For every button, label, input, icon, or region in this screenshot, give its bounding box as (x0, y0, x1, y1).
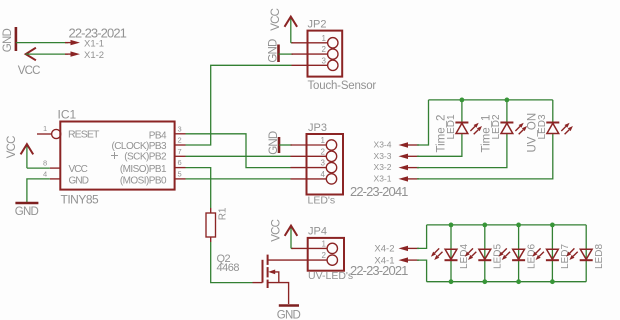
pin JP2-3 (292, 56, 338, 70)
connector JP2 (308, 19, 377, 92)
wire X3-2 to LED2 (417, 134, 507, 168)
wire top bus (427, 224, 587, 226)
svg-text:4: 4 (43, 169, 47, 178)
svg-text:(MISO)PB1: (MISO)PB1 (120, 164, 167, 175)
wire gnd to JP3 pin1 (279, 144, 292, 146)
svg-text:LED2: LED2 (491, 114, 502, 139)
pin 1 RESET (37, 124, 100, 141)
diode LED5 (465, 244, 504, 269)
svg-text:VCC: VCC (271, 219, 283, 241)
ground at JP3 (268, 131, 280, 155)
pin X1-1 (65, 38, 104, 49)
connector JP4 (308, 226, 353, 283)
pin JP4-2 (292, 251, 338, 265)
transistor Q2 (217, 253, 292, 304)
svg-text:7: 7 (178, 147, 182, 156)
svg-text:4468: 4468 (217, 262, 240, 274)
svg-text:GND: GND (277, 310, 301, 320)
supply VCC (18, 48, 40, 77)
pin X3-2 (374, 162, 419, 172)
pin X3-3 (374, 151, 419, 161)
wire X3-4 to led bus (417, 100, 429, 145)
diode LED4 (431, 244, 470, 269)
svg-text:LED7: LED7 (560, 244, 571, 269)
svg-text:22-23-2021: 22-23-2021 (69, 26, 127, 41)
svg-text:1: 1 (322, 239, 327, 248)
pin X3-1 (374, 173, 419, 183)
junction LED6 bottom (516, 279, 521, 284)
supply VCC at JP2 (270, 8, 297, 42)
wire (26, 53, 68, 55)
wire gnd to JP2 pin2 (279, 53, 294, 55)
ground at IC (15, 203, 39, 218)
pin 5 PB0 (120, 169, 186, 186)
ic origin cross (111, 152, 118, 159)
wire (16, 42, 68, 44)
pin 8 VCC (43, 159, 88, 176)
svg-text:3: 3 (178, 124, 182, 133)
wire X4-2 to top bus (417, 225, 427, 249)
svg-text:PB4: PB4 (149, 131, 167, 142)
svg-text:(SCK)PB2: (SCK)PB2 (124, 152, 167, 163)
svg-text:X3-1: X3-1 (374, 173, 392, 183)
wire X3-3 to LED1 (417, 134, 462, 157)
wire PB1 down to R1 (186, 168, 211, 208)
svg-text:X4-1: X4-1 (374, 255, 394, 266)
svg-text:UV-LED's: UV-LED's (308, 270, 353, 282)
pin X4-2 (374, 244, 419, 255)
diode LED7 (532, 244, 571, 269)
svg-text:GND: GND (268, 131, 280, 155)
svg-text:3: 3 (322, 56, 327, 65)
supply VCC at JP4 (271, 219, 298, 248)
junction LED5 bottom (482, 279, 487, 284)
diode LED6 (498, 244, 537, 269)
diode LED8 (566, 244, 605, 269)
junction LED6 top (516, 223, 521, 228)
svg-text:2: 2 (322, 251, 327, 260)
pin JP3-3 (291, 159, 337, 173)
junction LED7 top (550, 223, 555, 228)
wire LED5 branch (484, 225, 486, 282)
wire PB3 to JP2 pin3 (186, 65, 292, 145)
svg-text:LED's: LED's (308, 195, 336, 207)
svg-text:VCC: VCC (18, 65, 40, 77)
wire LED6 branch (518, 225, 520, 282)
wire anode bus (429, 99, 553, 101)
svg-text:22-23-2041: 22-23-2041 (350, 184, 408, 199)
pin 7 PB2 (124, 147, 185, 163)
junction at LED1 (460, 98, 465, 103)
junction LED4 bottom (449, 279, 454, 284)
svg-text:X3-3: X3-3 (374, 151, 392, 161)
wire PB4 to JP3 pin3 (186, 134, 291, 168)
svg-text:2: 2 (322, 45, 327, 54)
svg-text:R1: R1 (218, 207, 229, 220)
supply VCC at IC (6, 136, 33, 168)
pin 6 PB1 (120, 158, 186, 175)
svg-text:(MOSI)PB0: (MOSI)PB0 (120, 176, 167, 187)
svg-text:5: 5 (178, 169, 182, 178)
pin JP3-4 (291, 170, 337, 184)
svg-text:JP3: JP3 (308, 122, 327, 134)
svg-text:TINY85: TINY85 (61, 192, 100, 206)
svg-text:GND: GND (2, 29, 14, 53)
svg-text:6: 6 (178, 158, 182, 167)
svg-text:1: 1 (321, 136, 326, 145)
wire LED1 stem (461, 100, 463, 123)
junction LED4 top (449, 223, 454, 228)
svg-text:X1-2: X1-2 (84, 50, 104, 61)
svg-text:GND: GND (268, 39, 280, 63)
svg-text:GND: GND (69, 176, 89, 187)
svg-text:2: 2 (321, 147, 326, 156)
diode LED1 (436, 114, 483, 152)
svg-text:LED6: LED6 (526, 244, 537, 269)
svg-text:Touch-Sensor: Touch-Sensor (308, 80, 377, 92)
svg-text:(CLOCK)PB3: (CLOCK)PB3 (111, 141, 167, 152)
pin JP3-2 (291, 147, 337, 161)
wire bottom bus (427, 281, 587, 283)
svg-text:X4-2: X4-2 (374, 244, 394, 255)
svg-text:2: 2 (178, 136, 182, 145)
diode LED2 (481, 114, 528, 152)
svg-text:VCC: VCC (6, 136, 18, 158)
pin 4 GND (43, 169, 89, 186)
junction LED5 top (482, 223, 487, 228)
svg-text:3: 3 (321, 159, 326, 168)
wire PB2 to JP3 pin2 (186, 155, 291, 157)
svg-text:JP2: JP2 (308, 19, 327, 31)
svg-text:IC1: IC1 (58, 108, 77, 122)
svg-text:X3-2: X3-2 (374, 162, 392, 172)
ground at JP2 (268, 39, 280, 63)
wire pin4 to gnd (27, 179, 50, 202)
junction LED7 bottom (550, 279, 555, 284)
connector JP3 (307, 122, 344, 207)
svg-text:VCC: VCC (69, 164, 88, 175)
wire LED8 branch (585, 225, 587, 282)
wire LED2 stem (506, 100, 508, 123)
svg-text:8: 8 (43, 159, 47, 168)
wire R1 to gate (211, 242, 253, 283)
wire LED4 branch (450, 225, 452, 282)
wire LED3 stem (552, 100, 554, 123)
pin JP2-2 (292, 45, 338, 59)
wire LED7 branch (551, 225, 553, 282)
svg-text:VCC: VCC (270, 8, 282, 30)
svg-text:JP4: JP4 (308, 226, 327, 238)
svg-text:LED8: LED8 (594, 244, 605, 269)
wire vcc to JP4 pin1 (291, 247, 293, 249)
svg-text:1: 1 (43, 124, 47, 133)
svg-text:1: 1 (322, 34, 327, 43)
wire vcc to pin8 (27, 167, 50, 169)
resistor R1 (206, 207, 229, 242)
ground (2, 27, 16, 52)
svg-text:4: 4 (321, 170, 326, 179)
diode LED3 (526, 113, 572, 153)
svg-text:LED4: LED4 (459, 244, 470, 269)
pin 2 PB3 (111, 136, 185, 153)
svg-text:LED1: LED1 (446, 114, 457, 139)
pin JP2-1 (292, 34, 338, 48)
svg-text:LED5: LED5 (493, 244, 504, 269)
svg-text:RESET: RESET (68, 129, 100, 141)
pin 3 PB4 (149, 124, 186, 141)
pin JP4-1 (292, 239, 338, 253)
svg-text:LED3: LED3 (537, 114, 548, 139)
svg-text:X3-4: X3-4 (374, 140, 392, 150)
wire X3-1 to LED3 (417, 134, 553, 179)
ground at Q2 (277, 306, 301, 320)
pin X4-1 (374, 255, 419, 266)
ic IC1 (TINY85) (58, 108, 175, 207)
pin JP3-1 (291, 136, 337, 150)
junction at LED2 (505, 98, 510, 103)
pin X3-4 (374, 140, 419, 150)
wire vcc to JP2 pin1 (291, 42, 293, 44)
pin X1-2 (65, 50, 104, 61)
svg-text:GND: GND (15, 206, 39, 218)
wire PB0 to JP3 pin4 (186, 178, 291, 180)
wire X4-1 to bottom bus (417, 260, 427, 282)
